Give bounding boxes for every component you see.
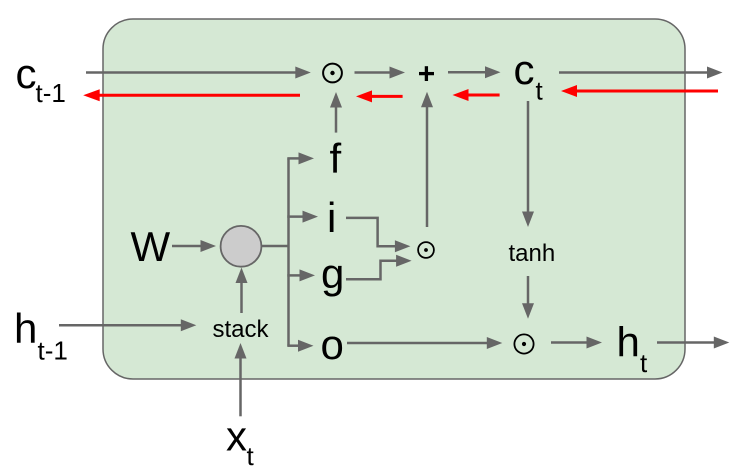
svg-text:t-1: t-1 <box>36 78 66 108</box>
wire o to output product <box>347 337 502 349</box>
svg-text:h: h <box>617 319 640 366</box>
svg-text:x: x <box>226 413 247 460</box>
branch wire to i <box>287 211 318 223</box>
wire c_t out right <box>559 67 723 79</box>
wire c_t down to tanh <box>522 101 534 227</box>
wire c_t-1 to forget product <box>86 67 311 79</box>
svg-text:t-1: t-1 <box>38 336 68 366</box>
node h_t-1 label <box>14 305 68 366</box>
LSTM cell body <box>103 19 685 379</box>
red backward wire to c_t-1 <box>83 89 300 101</box>
op elementwise-product (forget) <box>323 64 342 83</box>
svg-text:t: t <box>640 348 648 378</box>
op elementwise-product (i*g) <box>418 242 434 258</box>
branch wire to g <box>287 269 315 281</box>
svg-text:t: t <box>247 441 255 471</box>
svg-text:c: c <box>16 50 37 97</box>
node c_t label <box>514 46 544 106</box>
red backward wire product-to-plus segment <box>356 90 403 102</box>
wire output product to h_t <box>551 337 602 349</box>
wire g to mid product (elbow) <box>346 255 412 280</box>
node c_t-1 label <box>16 50 66 108</box>
svg-text:tanh: tanh <box>509 240 556 267</box>
wire i to mid product (elbow) <box>346 218 410 252</box>
wire h_t out right <box>657 337 729 349</box>
svg-text:W: W <box>131 223 171 270</box>
red backward wire from right into c_t <box>561 85 718 97</box>
svg-text:f: f <box>330 135 342 182</box>
svg-text:c: c <box>514 46 535 93</box>
svg-text:g: g <box>321 250 344 297</box>
svg-text:h: h <box>14 305 37 352</box>
wire h_t-1 to stack <box>59 319 196 331</box>
stack node circle <box>221 226 262 267</box>
node h_t label <box>617 319 649 379</box>
wire f gate up to forget product <box>330 92 342 133</box>
svg-text:stack: stack <box>213 316 270 343</box>
svg-text:i: i <box>327 194 336 241</box>
wire product to plus <box>355 67 406 79</box>
svg-text:t: t <box>536 76 544 106</box>
wire mid product up to plus <box>421 92 433 227</box>
branch wire to f <box>287 152 314 164</box>
wire plus to c_t <box>448 66 501 78</box>
svg-text:o: o <box>321 321 344 368</box>
wire tanh down to output product <box>522 276 534 319</box>
wire W to stack circle <box>172 240 216 252</box>
node x_t label <box>226 413 255 472</box>
wire x_t up to stack <box>235 343 247 416</box>
wire stack label up to circle <box>236 268 248 314</box>
op plus <box>419 66 434 81</box>
op elementwise-product (o*tanh) <box>514 334 533 353</box>
branch wire to o <box>287 340 313 352</box>
red backward wire plus-to-c_t segment <box>453 89 500 101</box>
branch trunk vertical <box>287 158 290 345</box>
wire W-circle to branch trunk <box>261 245 289 248</box>
